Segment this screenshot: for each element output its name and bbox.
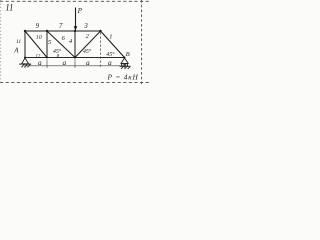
svg-text:45°: 45° (53, 48, 62, 55)
svg-text:P = 4кН: P = 4кН (107, 72, 139, 81)
svg-text:P: P (77, 7, 83, 15)
node T1 (24, 30, 26, 32)
svg-text:7: 7 (59, 23, 63, 30)
dimension tick at 47 (46, 60, 48, 69)
diagonal member 2 (75, 31, 101, 58)
node bottom second (46, 57, 48, 59)
page background (0, 0, 150, 84)
svg-text:11: 11 (5, 3, 13, 13)
node T4 (99, 30, 101, 32)
svg-text:10: 10 (36, 35, 42, 41)
svg-text:9: 9 (36, 23, 40, 30)
svg-text:1: 1 (109, 33, 112, 40)
diagonal member 6 (47, 31, 75, 58)
vertical member 5 (46, 31, 48, 58)
svg-text:a: a (63, 58, 67, 67)
node T2 (46, 30, 48, 32)
bottom dashed border (0, 82, 150, 84)
node B junction (124, 57, 126, 59)
load arrow P (75, 8, 77, 28)
node bottom mid (74, 56, 76, 58)
svg-text:5: 5 (48, 39, 51, 46)
left dotted border (0, 0, 2, 84)
svg-text:A: A (13, 47, 19, 54)
roller support at B (120, 58, 131, 69)
diagonal member 10 (25, 31, 47, 58)
svg-text:a: a (86, 58, 90, 67)
pin support at A (19, 58, 31, 67)
dimension tick at B (124, 64, 126, 68)
svg-text:45°: 45° (106, 51, 115, 58)
sloping end member 1 (101, 31, 125, 58)
svg-text:a: a (108, 58, 112, 67)
bottom chord (members 12,8,...) (25, 57, 125, 59)
node A junction (24, 57, 26, 59)
svg-text:11: 11 (16, 39, 21, 45)
svg-text:a: a (38, 58, 42, 67)
dimension line (25, 65, 125, 67)
vertical member 11 (24, 31, 26, 58)
vertical member 4 (74, 31, 76, 58)
dashed extension line at x=100 (100, 33, 102, 69)
right dashed border (141, 0, 143, 84)
svg-text:B: B (126, 51, 130, 58)
top dashed border (0, 0, 150, 2)
node T3 (74, 30, 76, 32)
dimension tick at 75 (74, 60, 76, 69)
svg-text:3: 3 (83, 23, 88, 30)
dimension tick at A (24, 64, 26, 68)
svg-text:45°: 45° (83, 48, 92, 55)
top chord (members 9,7,3) (25, 30, 101, 32)
